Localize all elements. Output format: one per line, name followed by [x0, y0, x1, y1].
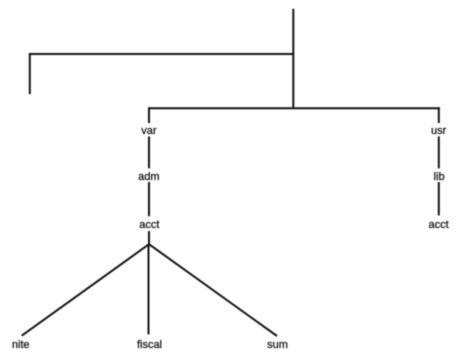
svg-text:adm: adm	[138, 171, 159, 183]
svg-text:fiscal: fiscal	[137, 339, 162, 351]
wire lower horizontal	[148, 107, 440, 109]
wire drop to usr	[438, 107, 440, 123]
wire adm to acct	[148, 182, 150, 216]
svg-text:acct: acct	[139, 219, 159, 231]
wire drop to var	[148, 107, 150, 123]
wire diagonal to sum	[149, 244, 277, 336]
svg-text:sum: sum	[267, 339, 288, 351]
wire diagonal to nite	[22, 244, 149, 336]
wire upper horizontal	[29, 53, 294, 55]
svg-text:nite: nite	[12, 339, 30, 351]
wire usr to lib	[438, 136, 440, 168]
svg-text:lib: lib	[434, 171, 445, 183]
wire vertical to fiscal	[148, 244, 150, 334]
wire root vertical	[292, 9, 294, 109]
wire lib to acct	[438, 182, 440, 216]
wire acct to fan apex	[148, 231, 150, 244]
svg-text:usr: usr	[431, 125, 447, 137]
wire var to adm	[148, 136, 150, 168]
svg-text:var: var	[141, 125, 157, 137]
wire left stub vertical	[29, 53, 31, 94]
svg-text:acct: acct	[429, 219, 449, 231]
